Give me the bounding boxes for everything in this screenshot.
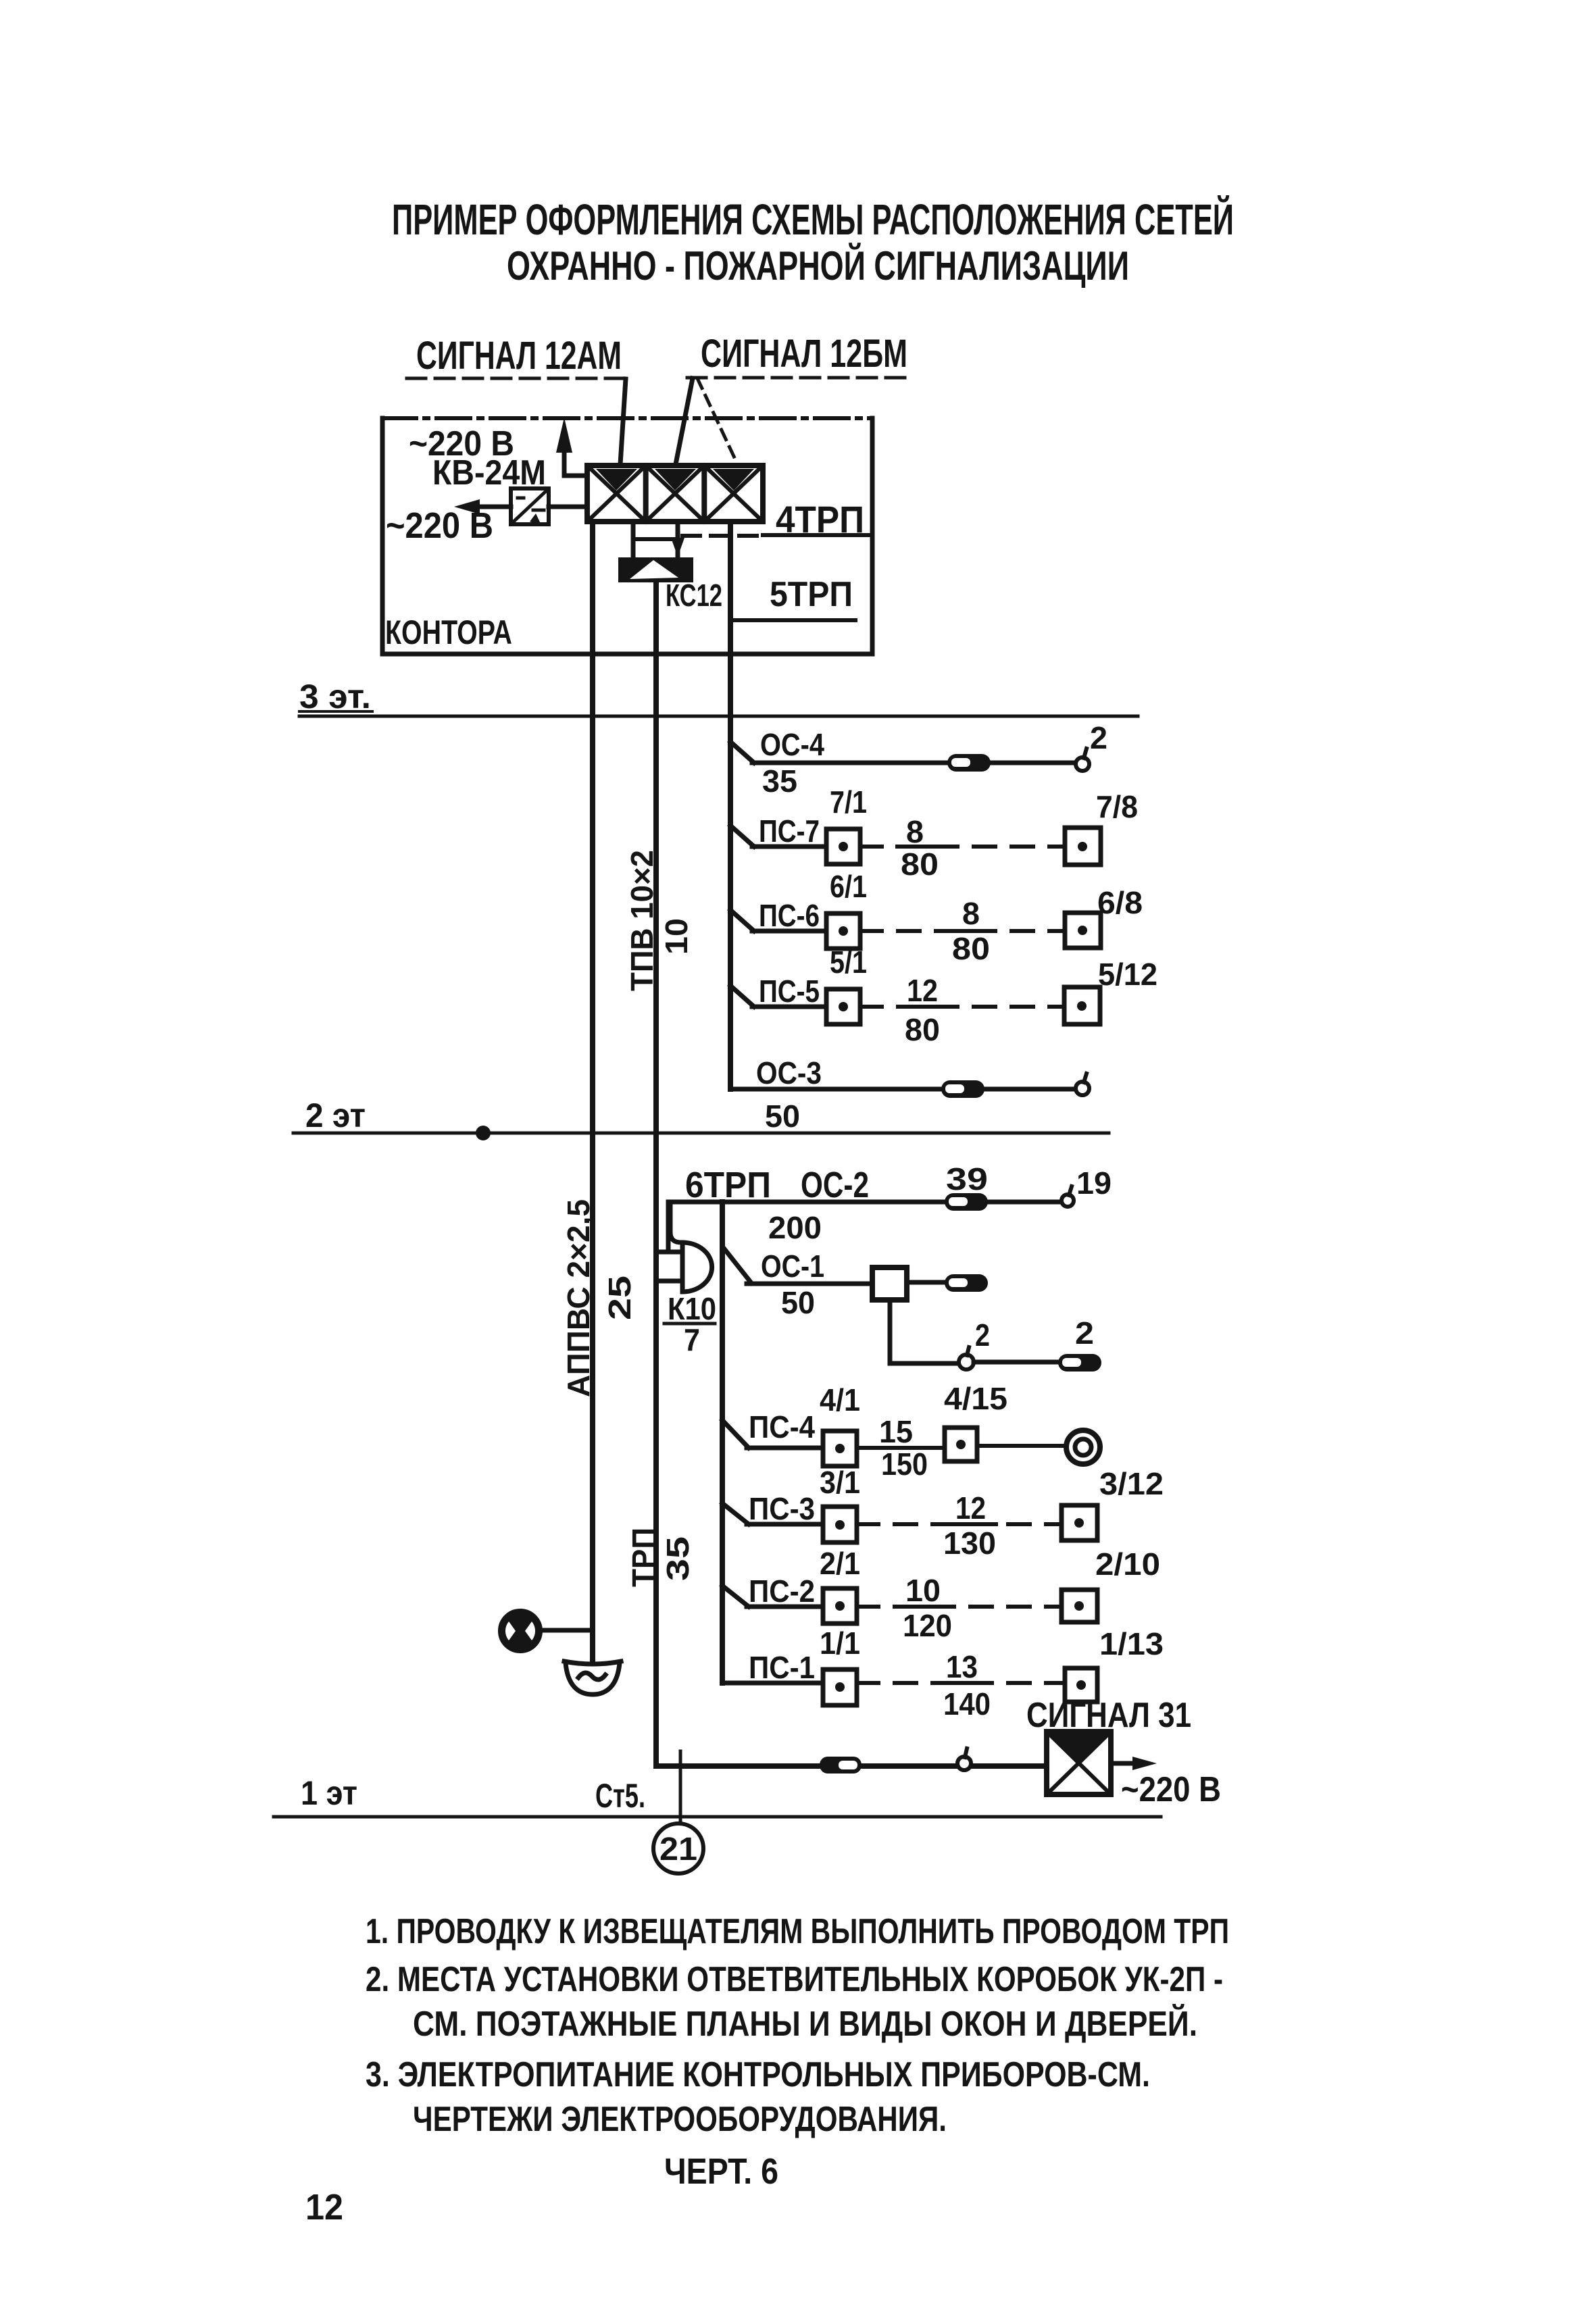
dashed leader from Сигнал 12БМ to unit 3 <box>697 378 737 462</box>
splice box on ОС-4 <box>947 754 991 772</box>
tap circle <box>959 1355 974 1369</box>
svg-text:12: 12 <box>305 2187 343 2228</box>
wire ПС-4 <box>747 1446 823 1451</box>
svg-text:12: 12 <box>907 973 938 1008</box>
svg-text:ЧЕРТ. 6: ЧЕРТ. 6 <box>664 2151 778 2192</box>
detector 5/12 <box>1064 987 1100 1024</box>
splice box on ОС-2 <box>945 1193 988 1211</box>
wire rectifier to left arrow <box>478 505 511 509</box>
svg-text:СИГНАЛ 12БМ: СИГНАЛ 12БМ <box>701 332 907 376</box>
end circle ОС-4 <box>1076 757 1089 771</box>
svg-text:ТРП: ТРП <box>626 1528 661 1587</box>
branch trunk 3rd floor <box>728 522 733 1089</box>
splice box on ОС-1 <box>945 1274 988 1292</box>
branch ОС-1 from К10 <box>723 1247 751 1283</box>
svg-text:21: 21 <box>659 1832 697 1867</box>
svg-text:35: 35 <box>762 763 797 799</box>
svg-text:ПС-7: ПС-7 <box>759 813 820 849</box>
svg-text:5/1: 5/1 <box>830 945 867 980</box>
svg-text:ОХРАННО - ПОЖАРНОЙ СИГНАЛИЗАЦИ: ОХРАННО - ПОЖАРНОЙ СИГНАЛИЗАЦИИ <box>507 243 1129 288</box>
svg-text:35: 35 <box>660 1536 695 1581</box>
svg-text:6/1: 6/1 <box>830 869 867 904</box>
arrow to ~220 В <box>1111 1761 1145 1766</box>
svg-text:ПС-5: ПС-5 <box>759 974 820 1009</box>
svg-text:19: 19 <box>1076 1165 1112 1201</box>
branch ПС-7 <box>730 826 754 847</box>
svg-text:СМ. ПОЭТАЖНЫЕ ПЛАНЫ И ВИДЫ: СМ. ПОЭТАЖНЫЕ ПЛАНЫ И ВИДЫ ОКОН И ДВЕРЕЙ… <box>413 2004 1197 2044</box>
detector 4/15 <box>945 1428 977 1461</box>
svg-text:39: 39 <box>946 1161 988 1197</box>
detector 3/12 <box>1062 1505 1097 1540</box>
power feed up-arrow <box>564 446 587 476</box>
detector 3/1 <box>823 1507 857 1542</box>
tap circle on ground wire <box>957 1757 971 1770</box>
svg-text:2: 2 <box>1075 1315 1094 1351</box>
svg-text:3 эт.: 3 эт. <box>299 678 371 715</box>
detector 6/1 <box>826 913 860 949</box>
wires unit row to КС12 <box>631 522 636 558</box>
svg-text:80: 80 <box>952 931 990 966</box>
svg-text:КОНТОРА: КОНТОРА <box>385 613 512 651</box>
splice box on ground wire <box>820 1757 862 1774</box>
svg-text:130: 130 <box>943 1526 996 1561</box>
dashed loop wire ПС-2 <box>857 1605 1062 1609</box>
svg-text:~220 В: ~220 В <box>1121 1770 1221 1809</box>
svg-text:К10: К10 <box>668 1291 716 1326</box>
leader wire from Сигнал 12АМ to unit 1 <box>620 379 626 464</box>
wire rectifier to unit row <box>549 505 587 509</box>
dashed loop wire ПС-3 <box>857 1522 1062 1526</box>
branch ПС-2 <box>722 1586 749 1607</box>
branch ПС-6 <box>730 910 754 931</box>
floor line 3 <box>299 715 1138 718</box>
branch ОС-4 <box>730 742 754 763</box>
svg-text:13: 13 <box>946 1649 978 1684</box>
bundle bracket under unit row <box>633 537 678 541</box>
junction box К10/7 stubs <box>656 1250 682 1255</box>
svg-text:1. ПРОВОДКУ К ИЗВЕЩАТЕЛЯМ: 1. ПРОВОДКУ К ИЗВЕЩАТЕЛЯМ ВЫПОЛНИТЬ ПРОВ… <box>366 1912 1229 1951</box>
riser trunk middle + wire to Сигнал 31 <box>656 582 1047 1766</box>
dashed loop wire ПС-1 <box>857 1681 1065 1685</box>
wire to splice <box>974 1360 1058 1365</box>
dashed loop wire ПС-5 <box>860 1005 1064 1009</box>
detector 7/1 <box>826 829 860 864</box>
svg-text:Ст5.: Ст5. <box>595 1777 645 1815</box>
svg-text:4/1: 4/1 <box>820 1382 860 1417</box>
svg-text:ОС-3: ОС-3 <box>756 1055 822 1090</box>
svg-text:2. МЕСТА УСТАНОВКИ ОТВЕТВИТ: 2. МЕСТА УСТАНОВКИ ОТВЕТВИТЕЛЬНЫХ КОРОБО… <box>366 1960 1223 1999</box>
end circle ОС-2 <box>1062 1194 1074 1207</box>
detector 1/13 <box>1065 1668 1097 1702</box>
wire ОС-1 <box>747 1282 872 1286</box>
wire ПС-3 <box>747 1522 823 1527</box>
wire to bell <box>977 1444 1066 1448</box>
svg-text:10: 10 <box>659 918 694 955</box>
svg-text:ПС-1: ПС-1 <box>749 1650 815 1685</box>
riser tick <box>679 1751 682 1825</box>
svg-text:АППВС 2×2,5: АППВС 2×2,5 <box>561 1199 596 1397</box>
branch ПС-3 <box>722 1503 749 1524</box>
svg-text:7/1: 7/1 <box>830 784 867 820</box>
svg-text:6/8: 6/8 <box>1097 885 1143 920</box>
svg-text:ЧЕРТЕЖИ ЭЛЕКТРООБОРУДОВАНИЯ.: ЧЕРТЕЖИ ЭЛЕКТРООБОРУДОВАНИЯ. <box>413 2100 947 2139</box>
svg-text:8: 8 <box>962 896 980 931</box>
bell bowl at trunk end <box>564 1661 621 1694</box>
svg-text:1/1: 1/1 <box>820 1626 860 1661</box>
dashed loop wire ПС-6 <box>860 929 1065 933</box>
wire ПС-7 <box>752 845 826 849</box>
wire 15/150 <box>857 1446 945 1450</box>
junction box К10/7 (half-circle) <box>682 1242 712 1292</box>
wire 4ТРП (dashed part + solid part) <box>682 534 760 538</box>
svg-text:50: 50 <box>765 1099 800 1134</box>
svg-text:50: 50 <box>781 1285 815 1320</box>
svg-text:СИГНАЛ 12АМ: СИГНАЛ 12АМ <box>416 334 622 378</box>
svg-text:150: 150 <box>881 1447 928 1482</box>
svg-text:2/10: 2/10 <box>1095 1546 1160 1582</box>
svg-text:3/1: 3/1 <box>820 1465 860 1500</box>
svg-text:80: 80 <box>901 847 939 882</box>
wire ОС-2 elbow <box>668 1202 1062 1251</box>
riser trunk АППВС (left) <box>590 522 595 1661</box>
svg-text:ОС-4: ОС-4 <box>760 727 824 762</box>
wire ОС-1 to splice <box>907 1280 946 1285</box>
junction dot on floor line 2 <box>476 1126 491 1140</box>
svg-text:2 эт: 2 эт <box>305 1097 366 1134</box>
drop wire from ОС-1 box <box>890 1300 959 1363</box>
svg-text:7: 7 <box>684 1322 700 1357</box>
detector 2/1 <box>823 1588 857 1624</box>
wire ПС-5 <box>752 1005 826 1009</box>
svg-text:1 эт: 1 эт <box>301 1774 357 1812</box>
floor line 1 <box>274 1815 1161 1819</box>
underline of 3 эт. <box>299 710 372 713</box>
detector 2/10 <box>1062 1590 1097 1622</box>
detector 4/1 <box>823 1431 857 1466</box>
svg-text:4/15: 4/15 <box>944 1381 1007 1416</box>
svg-text:12: 12 <box>955 1490 986 1526</box>
svg-text:3/12: 3/12 <box>1099 1466 1164 1501</box>
end circle ОС-3 <box>1076 1082 1089 1095</box>
wire ОС-4 <box>752 761 1077 765</box>
splice box <box>1058 1354 1101 1372</box>
dashed loop wire ПС-7 <box>860 845 1065 849</box>
wire ОС-3 <box>730 1087 1074 1092</box>
junction box on ОС-1 <box>872 1267 907 1300</box>
svg-text:2: 2 <box>1090 720 1107 755</box>
building box Контора: left/bottom/right edges <box>382 418 872 654</box>
splice box on ОС-3 <box>941 1080 984 1098</box>
svg-text:5/12: 5/12 <box>1098 957 1157 992</box>
svg-text:140: 140 <box>943 1686 991 1721</box>
svg-text:1/13: 1/13 <box>1099 1626 1164 1661</box>
svg-text:80: 80 <box>905 1012 940 1047</box>
svg-text:200: 200 <box>768 1210 822 1245</box>
wire ПС-6 <box>752 929 826 934</box>
wire ПС-2 <box>747 1605 823 1609</box>
building box Контора: top dash-dot edge <box>382 416 872 420</box>
svg-text:ПС-2: ПС-2 <box>749 1574 815 1609</box>
svg-text:10: 10 <box>905 1573 941 1608</box>
branch trunk 2nd floor <box>720 1202 725 1683</box>
svg-text:ОС-1: ОС-1 <box>761 1249 824 1284</box>
svg-text:КС12: КС12 <box>666 578 722 613</box>
rectifier КВ-24М box <box>511 488 549 524</box>
svg-text:ОС-2: ОС-2 <box>801 1165 869 1205</box>
svg-text:ПС-4: ПС-4 <box>749 1409 815 1444</box>
floor line 2 <box>293 1132 1109 1135</box>
detector 6/8 <box>1065 913 1101 948</box>
svg-text:ПРИМЕР ОФОРМЛЕНИЯ СХЕМЫ РАСПОЛ: ПРИМЕР ОФОРМЛЕНИЯ СХЕМЫ РАСПОЛОЖЕНИЯ СЕТ… <box>392 195 1234 244</box>
leader wire from Сигнал 12БМ to unit 2 <box>676 378 693 464</box>
wire lamp to trunk <box>539 1628 593 1633</box>
svg-text:8: 8 <box>906 814 924 849</box>
lamp symbol (quadrant circle) <box>500 1611 541 1651</box>
branch ПС-4 <box>722 1420 749 1448</box>
branch ПС-5 <box>730 986 754 1007</box>
svg-text:25: 25 <box>602 1276 637 1320</box>
receiver unit row Сигнал-12 (3 crossed squares) <box>587 466 763 522</box>
detector 5/1 <box>826 989 860 1024</box>
bell (double circle) <box>1066 1430 1100 1464</box>
wire ПС-1 <box>722 1681 823 1686</box>
svg-text:5ТРП: 5ТРП <box>770 575 853 614</box>
svg-text:ПС-6: ПС-6 <box>759 898 820 933</box>
svg-text:3. ЭЛЕКТРОПИТАНИЕ КОНТРОЛЬНЫ: 3. ЭЛЕКТРОПИТАНИЕ КОНТРОЛЬНЫХ ПРИБОРОВ-С… <box>366 2055 1150 2094</box>
wire 5ТРП <box>730 618 855 622</box>
svg-text:7/8: 7/8 <box>1096 789 1138 824</box>
svg-text:2: 2 <box>975 1317 990 1353</box>
detector 1/1 <box>823 1669 857 1705</box>
riser number circle 21 <box>653 1823 703 1873</box>
svg-text:ПС-3: ПС-3 <box>749 1491 815 1526</box>
svg-text:ТПВ 10×2: ТПВ 10×2 <box>624 850 659 991</box>
svg-text:120: 120 <box>903 1608 952 1643</box>
loudspeaker КС12 <box>618 557 693 582</box>
detector 7/8 <box>1065 828 1101 865</box>
svg-text:2/1: 2/1 <box>820 1546 860 1581</box>
svg-text:6ТРП: 6ТРП <box>685 1165 771 1205</box>
wire ОС-2 drop into К10 <box>670 1205 681 1242</box>
svg-text:15: 15 <box>879 1414 913 1449</box>
receiver Сигнал 31 (crossed square) <box>1047 1732 1111 1794</box>
